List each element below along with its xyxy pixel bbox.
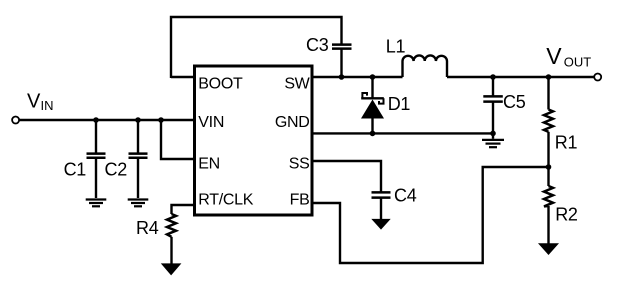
svg-text:C5: C5	[503, 92, 526, 112]
svg-text:R2: R2	[555, 205, 578, 225]
svg-text:D1: D1	[388, 94, 411, 114]
svg-text:L1: L1	[386, 37, 406, 57]
svg-text:BOOT: BOOT	[198, 76, 243, 93]
svg-text:RT/CLK: RT/CLK	[198, 192, 253, 209]
svg-text:SW: SW	[284, 76, 310, 93]
svg-text:R1: R1	[555, 133, 578, 153]
svg-text:C3: C3	[306, 35, 329, 55]
svg-text:C2: C2	[105, 160, 128, 180]
svg-text:C1: C1	[64, 160, 87, 180]
svg-text:V: V	[546, 43, 562, 69]
svg-text:V: V	[27, 90, 41, 112]
svg-text:VIN: VIN	[198, 114, 224, 131]
svg-text:R4: R4	[136, 218, 159, 238]
svg-text:OUT: OUT	[564, 55, 592, 70]
svg-text:EN: EN	[198, 155, 220, 172]
svg-text:GND: GND	[275, 114, 310, 131]
svg-text:FB: FB	[290, 192, 310, 209]
svg-text:IN: IN	[41, 98, 54, 113]
svg-text:SS: SS	[289, 155, 310, 172]
svg-text:C4: C4	[394, 186, 417, 206]
